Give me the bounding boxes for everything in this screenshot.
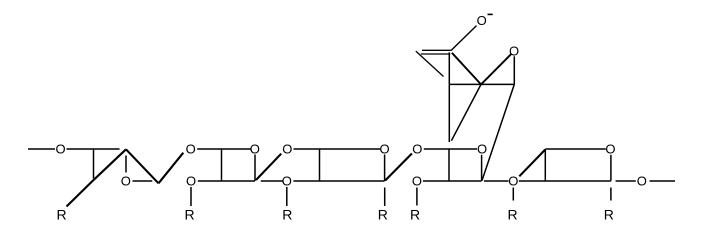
wire top unit long diagonal left	[451, 84, 481, 140]
wire O8 to R6	[512, 188, 514, 201]
svg-text:O: O	[477, 142, 487, 157]
svg-text:R: R	[410, 207, 420, 223]
svg-text:O: O	[379, 142, 389, 157]
wire O2 to ring2 top side	[197, 148, 250, 150]
wire ring3 C1 to R4	[384, 188, 386, 207]
wire ring3 left vertical	[319, 149, 321, 181]
wire ring1 ring O to C1	[133, 180, 153, 182]
wire carboxylate O minus bond	[451, 26, 477, 51]
svg-text:R: R	[507, 207, 517, 223]
wire minus sign of O minus	[488, 13, 493, 15]
wire double bond upper line	[422, 49, 451, 51]
wire O6 to ring4 top side	[424, 148, 477, 150]
wire O1 to ring1 C4	[67, 148, 120, 150]
svg-text:O: O	[637, 174, 647, 189]
svg-text:O: O	[508, 174, 518, 189]
wire top unit bottom side	[449, 83, 514, 85]
svg-text:R: R	[604, 207, 614, 223]
wire ring3 C1 to O6 diagonal	[385, 154, 412, 181]
wire O9 to terminal methyl right	[650, 180, 676, 182]
svg-text:O: O	[605, 142, 615, 157]
svg-text:O: O	[412, 142, 422, 157]
wire O8 to ring5 corner diagonal	[519, 150, 545, 177]
wire ring1 C1 to O2 glycosidic diagonal	[159, 153, 184, 184]
wire ring2 ring O to C1 vertical	[254, 155, 256, 182]
svg-text:O: O	[250, 142, 260, 157]
wire ring4 C1 to O8 horizontal	[484, 180, 509, 182]
svg-text:O: O	[477, 13, 487, 28]
wire ring4 left vertical	[448, 149, 450, 181]
wire ring5 ring O to C1 vertical	[610, 155, 612, 181]
wire ring5 C1 to O9 horizontal	[616, 180, 636, 182]
wire top unit left vertical long	[448, 52, 450, 142]
wire alkene C4 to ring corner stub	[416, 51, 444, 76]
wire ring2 C1 to O4 diagonal	[256, 154, 281, 180]
wire ring5 top side	[545, 148, 606, 150]
wire ring1 apex to C1 diagonal	[126, 149, 159, 183]
wire ring1 apex to ring O vertical	[125, 156, 127, 173]
wire ring2 C1 to O5 horizontal	[261, 180, 283, 182]
wire O5 to R3	[286, 187, 288, 206]
svg-text:O: O	[509, 44, 519, 59]
wire ring1 left vertical C4-C3	[93, 149, 95, 179]
wire O3 to R2	[190, 187, 192, 206]
wire terminal methyl left	[28, 148, 55, 150]
wire ring3 ring O to C1 vertical	[384, 155, 386, 182]
wire ring4 ring O to C1 vertical	[481, 155, 483, 181]
wire ring4 bottom side from O7	[423, 180, 482, 182]
svg-text:O: O	[412, 174, 422, 189]
svg-text:O: O	[282, 142, 292, 157]
wire ring2 left vertical	[221, 149, 223, 181]
wire top unit right vertical	[513, 56, 515, 84]
svg-text:O: O	[121, 174, 131, 189]
wire ring1 apex to C3 diagonal	[94, 149, 126, 179]
svg-text:R: R	[184, 207, 194, 223]
svg-text:O: O	[55, 142, 65, 157]
wire top unit glycosidic long diagonal to ring4 C1	[482, 84, 514, 180]
wire ring2 bottom side from O3	[198, 180, 255, 182]
svg-text:R: R	[378, 207, 388, 223]
svg-text:R: R	[282, 207, 292, 223]
svg-text:O: O	[282, 174, 292, 189]
wire ring5 C1 to R7	[610, 188, 612, 201]
wire double bond lower line	[421, 53, 450, 55]
wire O7 to R5	[416, 188, 418, 206]
wire top unit V left arm	[452, 53, 481, 85]
svg-text:O: O	[186, 174, 196, 189]
wire ring5 left vertical	[544, 149, 546, 181]
wire ring3 bottom side from O5	[293, 180, 384, 182]
svg-text:R: R	[56, 207, 66, 223]
wire top unit V right arm to ring O	[481, 54, 511, 85]
svg-text:O: O	[186, 142, 196, 157]
wire ring5 bottom side	[519, 180, 611, 182]
wire ring1 C3 to R1	[67, 179, 95, 206]
wire O4 to ring3 top side	[294, 148, 381, 150]
